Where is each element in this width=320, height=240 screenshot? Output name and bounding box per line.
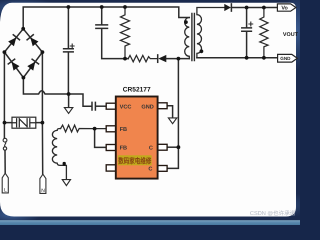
pin box row4 unconnected [106,165,116,171]
phase dot primary [184,20,188,24]
node C2 top [100,5,104,9]
IC body [116,97,158,179]
node load bottom [262,56,266,60]
ground symbol G1 [68,94,70,108]
diode D5 snubber [157,55,159,62]
wire: C pin row3 to node [167,146,178,148]
resistor R4 FB [61,125,107,132]
pin FB box row2 [106,126,116,132]
diode D6 output rectifier [224,4,231,11]
node fuse left [3,121,7,125]
node C pins junction [177,145,181,149]
svg-text:C: C [148,167,152,173]
svg-text:VCC: VCC [120,104,132,110]
svg-text:VOUT: VOUT [283,32,299,38]
resistor R3 load [260,8,268,58]
node output cap bottom [245,56,249,60]
transformer core [192,14,195,61]
terminal tag N [40,174,46,193]
svg-text:N: N [41,188,45,194]
node bridge top [21,27,25,31]
phase dot square on L2 [63,162,66,166]
svg-text:L: L [4,187,7,193]
capacitor C1 bulk [64,7,74,94]
svg-text:FB: FB [120,127,127,133]
wire: left rail L [3,52,5,138]
wire: primary bottom to switch node, down to C pins [167,59,178,169]
wire: output return rail [197,57,278,59]
phase dot secondary [200,49,204,53]
transformer T1 primary winding [185,18,190,59]
pin C box row4 [158,166,168,172]
varistor F1 across line [4,122,42,124]
transformer T1 secondary winding [197,8,224,58]
node switch [177,57,181,61]
IC U1 body CR52177 [106,97,167,179]
capacitor C4 vcc coupling [92,102,95,110]
svg-text:CSDN @也许承诺: CSDN @也许承诺 [250,210,296,217]
bottom steel-blue strip [0,220,300,225]
wire: VCC feed with step [69,94,91,106]
node fuse right [41,121,45,125]
wire: right rail N [41,52,43,174]
inductor L2 vertical [52,129,66,180]
capacitor C3 output [242,8,252,58]
node output cap top [245,6,249,10]
svg-text:GND: GND [280,56,291,61]
pin GND box [158,103,168,109]
terminal tag L [2,173,8,193]
svg-text:数码家电维修: 数码家电维修 [118,157,151,166]
node FB junction [93,127,97,131]
node ground junction [67,92,71,96]
svg-text:GND: GND [141,104,153,110]
svg-text:C: C [149,145,153,151]
svg-text:FB: FB [120,146,127,152]
svg-text:CR52177: CR52177 [123,86,151,93]
diode D1 (bridge left-top) [8,35,20,47]
resistor R1 snubber [121,7,130,59]
wire: output positive rail [231,7,277,9]
node C1 top [67,5,71,9]
IC watermark highlight [118,155,152,165]
terminal tag Vo [277,4,296,11]
wire: FB junction down to second FB pin [95,129,107,148]
pin VCC box [106,103,116,109]
ground symbol G2 under L2 [62,180,70,186]
bridge rectifier BR1 diamond [4,29,42,78]
ground symbol G3 at GND pin [168,118,176,124]
terminal tag GND [278,54,298,62]
pin FB box row3 [106,145,116,151]
wire: L line to terminal [4,150,6,173]
diode D4 (bridge bottom-right) [27,59,38,71]
wire: GND pin to ground [167,106,173,118]
wire: snubber node to primary bottom [166,58,189,60]
diode D2 (bridge right-top) [27,35,39,47]
pin C box row3 [158,144,168,150]
resistor R2 series [128,55,157,61]
capacitor C2 snubber [96,7,128,59]
diode D3 (bridge bottom-left) [8,59,19,71]
node bridge right [41,50,45,54]
node bridge bottom [22,76,26,80]
svg-text:Vo: Vo [281,6,288,12]
node bridge left [3,50,7,54]
node snubber bottom [123,57,127,61]
node load top [262,6,266,10]
fuse holder circles on L line [3,138,7,142]
node R1 top [123,5,127,9]
wire: bridge minus with hop over N [23,78,68,94]
wire: top rail from bridge to transformer primary [23,7,189,29]
